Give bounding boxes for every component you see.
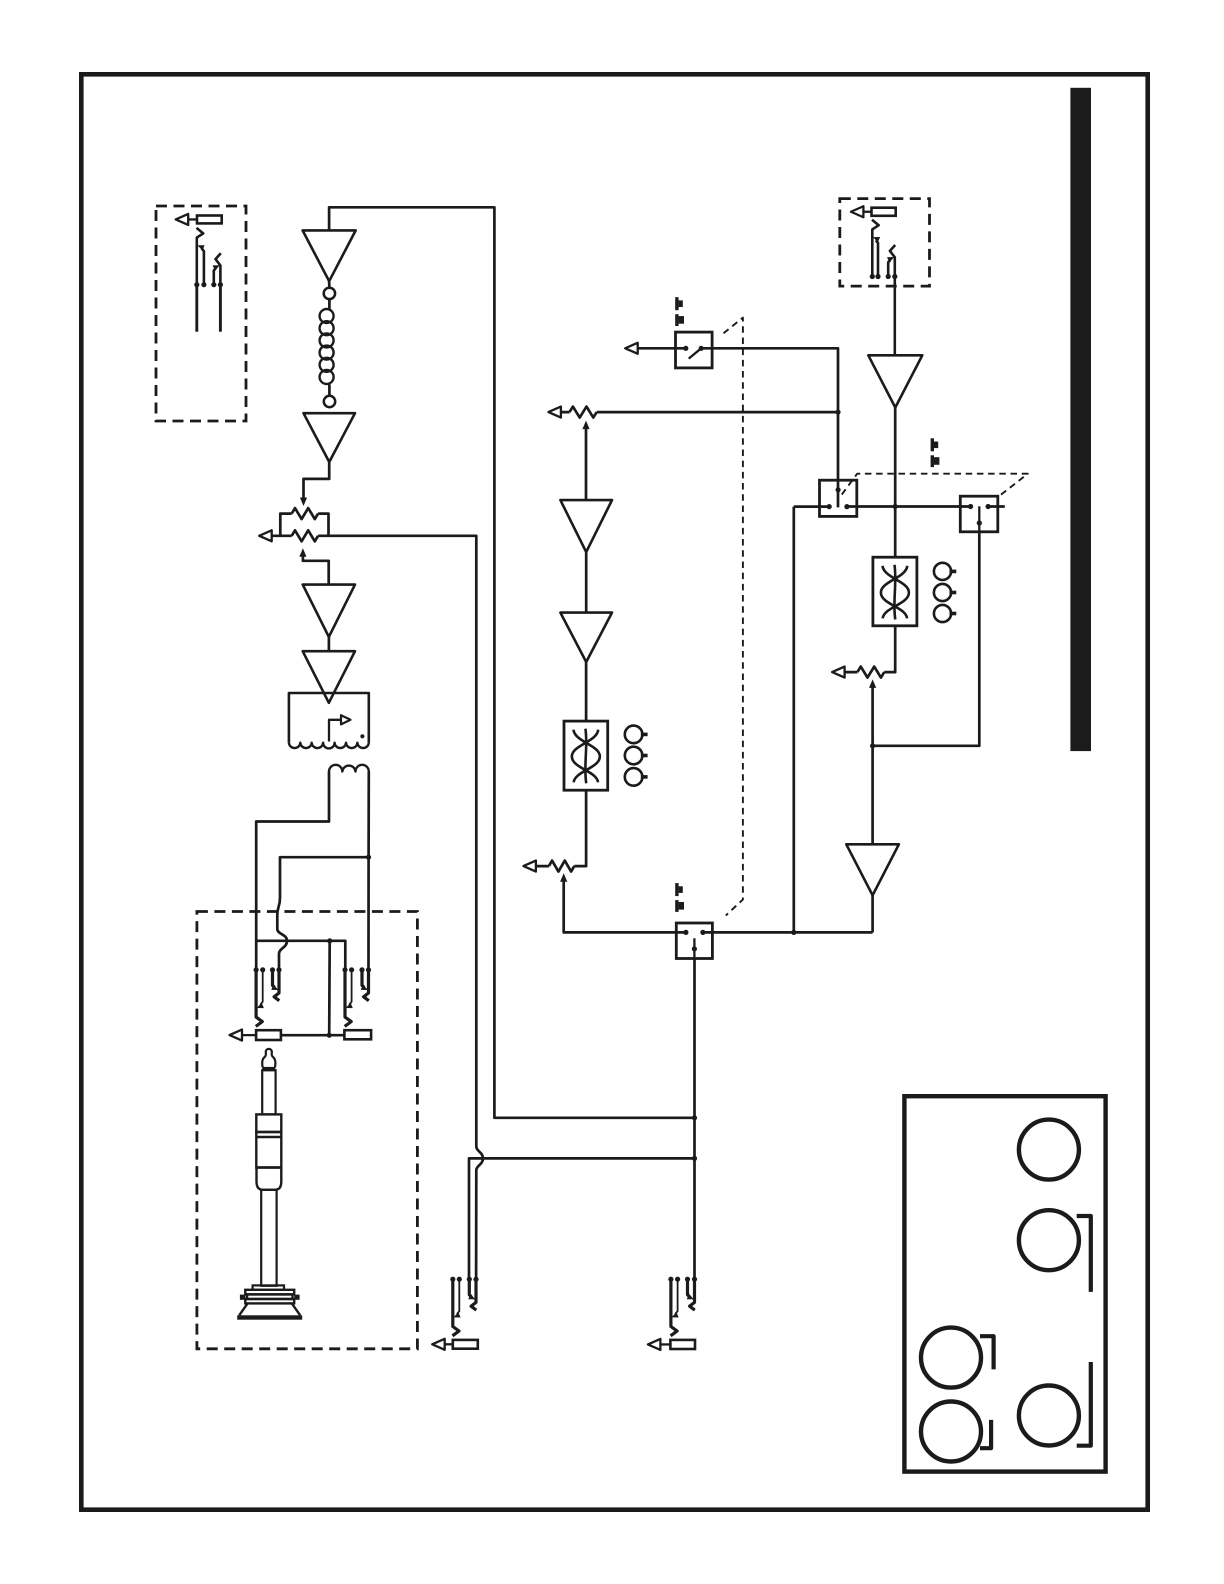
footswitch icon FS3 (931, 438, 934, 451)
switch S1 contact left (683, 346, 688, 351)
junction A7 line / bus (893, 504, 898, 509)
knob EQ2 treble (934, 563, 951, 580)
wire A8 to S2 line (871, 895, 874, 932)
tube V3 bracket (980, 1336, 994, 1369)
wire A6 to tone stack (585, 662, 588, 721)
open arrowhead VR4 out (832, 667, 845, 678)
wire lower bus with corner (469, 1158, 695, 1279)
arrow out of switch S1 (629, 347, 686, 350)
wiper arrow into VR3 (560, 873, 567, 882)
amplifier A4 (power amp) (303, 651, 355, 703)
switch S3 pole dot (836, 487, 841, 492)
switch S3 box (820, 480, 857, 516)
phone plug tip band (262, 1067, 275, 1070)
volume pot VR1b element (292, 530, 318, 541)
transformer T1 polarity dot (360, 734, 364, 738)
phone plug shaft (262, 1070, 275, 1114)
wire A3 to A4 (328, 637, 331, 651)
junction bus 1 (692, 1115, 697, 1120)
tube chart box (904, 1096, 1105, 1471)
amplifier A7 (868, 355, 922, 407)
speaker magnet bar 1 (245, 1290, 294, 1295)
input jack J5 bushing with arrow (872, 208, 896, 216)
wire J5 to amp A7 (893, 277, 896, 356)
wire ground bus to bushings (328, 941, 331, 1035)
phone plug tip (262, 1049, 275, 1067)
wiper arrow into VR4 (869, 679, 876, 688)
dashed linkage footswitch channel (724, 318, 743, 916)
speaker cone (239, 1303, 300, 1315)
enclosure: power amp in jack box (dashed) (840, 199, 930, 287)
jack J1 tip lead (195, 285, 198, 332)
wire secondary right leg to ext jack (367, 772, 370, 970)
wire A5 to A6 (585, 552, 588, 613)
pot loop left side (280, 514, 291, 536)
speaker magnet tab left (240, 1295, 245, 1300)
tube V5 circle (1019, 1386, 1079, 1446)
knob EQ1 treble (625, 726, 643, 744)
tone stack EQ1 box (564, 721, 608, 790)
tone stack EQ2 curves (883, 566, 909, 619)
pot VR2 element (570, 407, 597, 418)
title bar (rotated title text) (1070, 88, 1091, 751)
junction bus 2 (692, 1156, 697, 1161)
switch S2 contact left (683, 930, 688, 935)
tube V2 bracket (1077, 1216, 1091, 1292)
amplifier A1 (303, 230, 356, 281)
open arrowhead S1 out (625, 343, 638, 354)
phone plug band line 1 (256, 1136, 281, 1138)
switch S2 pole (693, 938, 695, 958)
wiper arrow into VR1b (299, 548, 306, 557)
arrow out left of VR2 (552, 411, 570, 414)
input jack J5 switching contacts (872, 220, 879, 277)
wire S4 down and left to VR4 node (873, 532, 980, 746)
tube V5 bracket (1077, 1362, 1091, 1446)
transformer T1 primary frame (289, 693, 369, 743)
plug cable stem (261, 1190, 276, 1286)
tube V2 circle (1019, 1210, 1079, 1270)
arrow out left of VR4 (835, 671, 857, 674)
input jack J1 switching contacts (197, 228, 204, 285)
knob EQ1 mid (625, 747, 643, 765)
dashed linkage S3-S4 (842, 474, 1028, 496)
junction S2 line / box A drop (791, 930, 796, 935)
wiper arrow into VR1a (300, 498, 307, 507)
node circle (coil top) (324, 288, 335, 299)
wire box A left pin out (794, 505, 829, 508)
open arrowhead VR3 out (523, 861, 536, 872)
tube V3 circle (921, 1328, 981, 1388)
pot VR3 element (549, 861, 574, 872)
wire A2 to volume pot wiper (304, 462, 330, 498)
switch S4 right stub (988, 505, 1005, 508)
jack J6 bushing with arrow (453, 1340, 478, 1349)
wire EQ2 to VR4 (884, 626, 895, 672)
speaker jack J2 contacts (256, 970, 262, 1027)
junction VR4 node (870, 743, 875, 748)
volume pot VR1a element (292, 508, 318, 519)
tone stack EQ1 curves (573, 730, 599, 783)
wiper arrow into VR2 (582, 421, 589, 430)
tube V4 circle (921, 1402, 981, 1462)
amplifier A6 (560, 613, 612, 662)
speaker cone rim (237, 1315, 302, 1319)
amplifier A8 (846, 844, 899, 895)
wire branch to speaker jack hot (277, 857, 368, 970)
switch S1 contact right (699, 346, 704, 351)
speaker magnet bar 3 (245, 1299, 294, 1303)
node circle (coil bottom) (324, 396, 335, 407)
phone plug taper (257, 1168, 282, 1190)
wire VR1 out down to jack J6 (with hop) (329, 536, 483, 1279)
switch S3 contact left (827, 504, 832, 509)
wire node to inductor (328, 299, 331, 310)
transformer T1 primary winding (scallops) (289, 743, 369, 749)
input jack J1 bushing with arrow (197, 216, 222, 224)
knob EQ2 bass (934, 605, 951, 622)
wire A7 to tone stack EQ2 (894, 408, 897, 558)
tube V4 bracket (980, 1420, 991, 1448)
wire secondary left leg to speaker jack (256, 772, 329, 970)
enclosure: speaker output box (dashed) (197, 912, 418, 1349)
junction trunk / VR2 line (835, 410, 840, 415)
open arrowhead VR2 out (548, 407, 561, 418)
switch S1 blade (689, 348, 702, 358)
wire VR4 wiper node (871, 687, 874, 844)
wire box A to box B bus (847, 505, 971, 508)
wire box A drop (792, 507, 795, 933)
switch S2 box (676, 923, 712, 959)
junction secondary branch (366, 855, 371, 860)
wire S1 to trunk (701, 348, 838, 507)
tone stack EQ2 box (873, 557, 917, 626)
tube V1 circle (1019, 1120, 1079, 1180)
phone plug body (256, 1132, 281, 1168)
arrow out left of VR1 (263, 534, 281, 537)
phone plug collar (256, 1114, 281, 1132)
speaker jack J3 contacts (345, 970, 352, 1027)
speaker jack J2 bushing with arrow (256, 1030, 281, 1040)
switch S2 contact right (700, 930, 705, 935)
wire VR2 to trunk (597, 411, 838, 414)
wire S2 to right chain (703, 931, 873, 934)
footswitch icon FS1 (675, 297, 678, 310)
jack J6 contacts (453, 1279, 460, 1336)
switch S3 contact right (844, 504, 849, 509)
wire amp A5 to VR2 wiper (585, 428, 588, 500)
jack J1 sleeve lead (219, 285, 222, 332)
wire VR1b wiper to amp A3 (303, 556, 329, 585)
arrow out left of VR3 (527, 865, 549, 868)
speaker magnet tab right (294, 1295, 299, 1300)
transformer T1 tap arrow (329, 720, 340, 742)
inductor L1 (reverb coil) (320, 309, 334, 323)
wire VR3 wiper to switch S2 (564, 881, 686, 933)
switch S4 contact right (986, 504, 991, 509)
speaker jack J3 bushing (344, 1030, 371, 1039)
knob EQ2 mid (934, 584, 951, 601)
jack J4 contacts (671, 1279, 678, 1336)
amplifier A2 (304, 413, 356, 462)
switch S1 box (676, 332, 713, 368)
switch S4 box (960, 496, 998, 532)
junction bushing link (327, 1033, 332, 1038)
wire: amp A1 input from bottom bus (long vertical) (329, 207, 694, 1118)
ground bus between jacks (256, 941, 345, 970)
amplifier A3 (303, 585, 355, 637)
pot VR4 element (857, 667, 884, 678)
wire A1 to node (328, 281, 331, 288)
wire S2 down to jack J4 (693, 959, 696, 1280)
speaker flange (253, 1285, 284, 1289)
speaker magnet bar 2 (247, 1294, 293, 1299)
wire EQ1 to VR3 (574, 790, 586, 866)
transformer T1 secondary winding (329, 765, 369, 772)
open arrowhead VR1 out (259, 530, 272, 541)
knob EQ1 bass (625, 768, 643, 786)
switch S4 contact left (968, 504, 973, 509)
wire inductor to node (328, 385, 331, 396)
switch S4 pole (978, 506, 980, 532)
amplifier A5 (560, 500, 612, 552)
pot loop right side (318, 514, 328, 536)
jack J4 bushing with arrow (670, 1340, 695, 1349)
switch S4 pole dot (977, 520, 982, 525)
switch S2 pole dot (692, 946, 697, 951)
enclosure: input jack box (dashed) (156, 206, 246, 421)
wire bushing J2 to J3 (281, 1034, 345, 1037)
junction ground bus (327, 938, 332, 943)
footswitch icon FS2 (675, 883, 678, 896)
